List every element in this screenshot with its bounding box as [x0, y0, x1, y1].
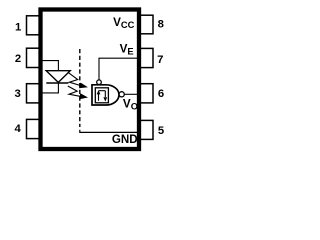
detector gate U2 (D shape) [92, 85, 119, 105]
wire pin2 to LED anode [42, 61, 58, 71]
light arrow 1 [68, 72, 80, 85]
output bubble [119, 92, 124, 97]
detector inner box (totem-pole output) [95, 88, 108, 103]
svg-text:1: 1 [15, 22, 21, 34]
pin 6 box [139, 84, 153, 103]
isolation dashed line [79, 49, 81, 127]
svg-text:7: 7 [157, 54, 163, 66]
pin 4 box [27, 119, 41, 138]
pin 1 box [27, 16, 41, 35]
pin 5 box [139, 120, 153, 139]
svg-text:6: 6 [158, 88, 164, 100]
wire VE (pin 7) to enable bubble [99, 58, 137, 80]
svg-text:4: 4 [14, 123, 21, 135]
light arrow 2 [68, 86, 80, 96]
LED D1 cathode bar [46, 82, 68, 84]
totem-pole top bar [99, 90, 106, 92]
svg-text:8: 8 [158, 18, 164, 30]
wire VO (pin 6) [124, 93, 137, 95]
svg-text:5: 5 [158, 125, 164, 137]
wire LED cathode to pin3 [42, 83, 58, 93]
totem-pole down arrow [104, 91, 106, 97]
package body U1 (8-pin DIP outline) [41, 10, 140, 150]
pin 8 box [139, 15, 153, 34]
pin 2 box [27, 48, 41, 67]
pin 3 box [27, 84, 41, 103]
svg-text:2: 2 [15, 53, 21, 65]
enable bubble on detector top [97, 80, 102, 85]
pin 7 box [139, 48, 153, 67]
svg-text:3: 3 [14, 88, 20, 100]
totem-pole up arrow [98, 94, 100, 101]
svg-text:GND: GND [112, 133, 138, 146]
wire GND (pin 5) [80, 130, 137, 133]
LED D1 triangle (anode) [46, 71, 70, 83]
